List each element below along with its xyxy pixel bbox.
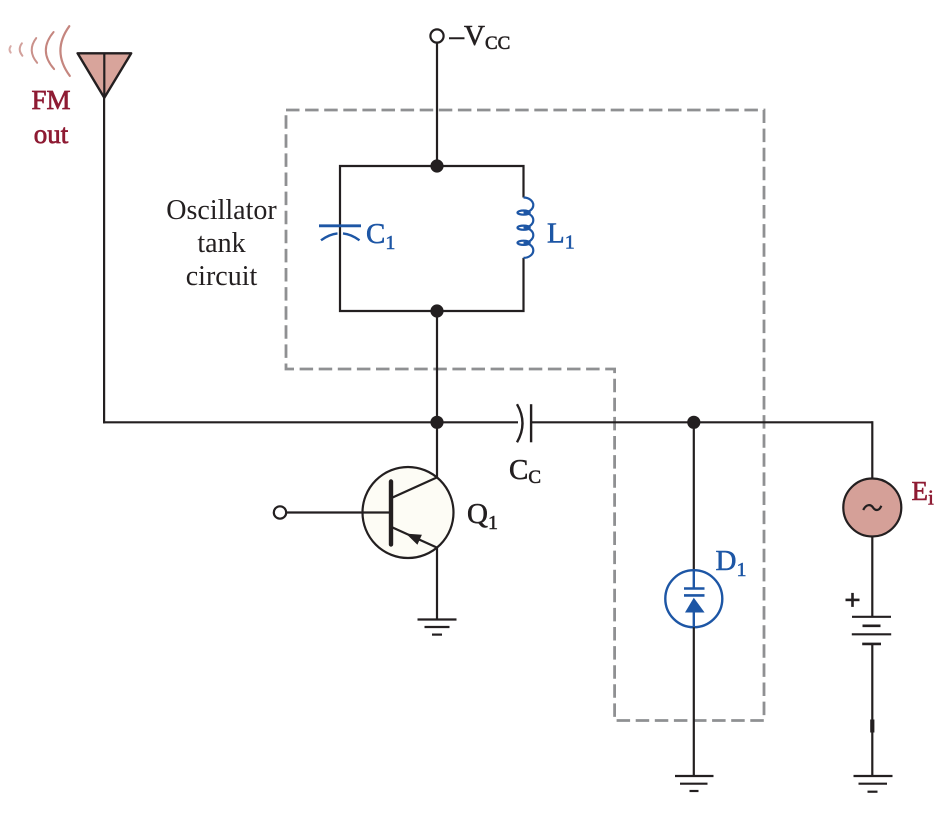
svg-text:Oscillator: Oscillator: [166, 195, 277, 226]
svg-text:L1: L1: [547, 218, 575, 254]
battery: [852, 617, 891, 644]
source Ei: [843, 479, 901, 537]
wire node B to Ei (down leg): [871, 421, 873, 478]
inductor L1: [518, 198, 534, 258]
antenna mast wire: [103, 98, 105, 424]
node B junction: [687, 416, 700, 429]
svg-text:FM: FM: [31, 85, 70, 115]
capacitor CC: [517, 404, 531, 442]
node: tank top junction: [430, 159, 443, 172]
ground (Ei): [854, 776, 893, 792]
svg-text:Ei: Ei: [912, 476, 935, 510]
varactor diode D1: [665, 570, 722, 627]
antenna: [78, 53, 132, 98]
node: tank bottom junction: [430, 304, 443, 317]
svg-text:–VCC: –VCC: [449, 20, 511, 54]
svg-text:circuit: circuit: [186, 261, 258, 292]
svg-text:C1: C1: [366, 218, 395, 254]
wire collector node to Q1: [436, 422, 438, 477]
wire D1 to ground: [693, 627, 695, 776]
label FM out: [31, 85, 70, 149]
svg-text:Q1: Q1: [467, 498, 498, 534]
base lead wire: [286, 511, 389, 513]
wire emitter to ground: [436, 548, 438, 620]
wire CC to node B: [531, 421, 872, 423]
wire tick mark: [870, 720, 874, 733]
base terminal: [274, 506, 286, 518]
wire node B to D1: [693, 422, 695, 570]
tank loop wire: [340, 166, 524, 311]
transistor Q1: [363, 467, 454, 558]
svg-text:D1: D1: [716, 545, 747, 581]
node A (collector node): [430, 416, 443, 429]
label Oscillator tank circuit: [166, 195, 277, 292]
wire battery to ground: [871, 644, 873, 776]
svg-text:out: out: [34, 119, 69, 149]
wire VCC to tank top: [436, 43, 438, 166]
ground (D1): [675, 776, 714, 791]
radio waves: [10, 26, 70, 76]
plus sign: [846, 593, 860, 607]
svg-text:CC: CC: [509, 454, 541, 488]
power terminal -VCC: [430, 29, 443, 42]
wire tank bottom to collector node: [436, 311, 438, 423]
wire main horizontal left (node to antenna): [103, 421, 518, 423]
capacitor C1: [319, 226, 361, 241]
ground (Q1 emitter): [418, 620, 457, 635]
wire Ei to battery: [871, 537, 873, 617]
svg-text:tank: tank: [197, 228, 245, 259]
oscillator tank boundary (dashed): [286, 110, 764, 721]
